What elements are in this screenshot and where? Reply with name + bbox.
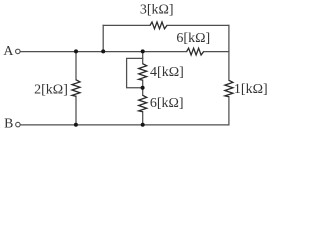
svg-text:1[kΩ]: 1[kΩ] [234,82,268,97]
svg-text:4[kΩ]: 4[kΩ] [150,65,184,80]
svg-text:6[kΩ]: 6[kΩ] [150,96,184,111]
svg-text:A: A [3,43,13,58]
svg-text:6[kΩ]: 6[kΩ] [176,31,210,46]
svg-text:3[kΩ]: 3[kΩ] [140,3,174,18]
svg-text:2[kΩ]: 2[kΩ] [34,82,68,97]
svg-text:B: B [4,116,13,131]
